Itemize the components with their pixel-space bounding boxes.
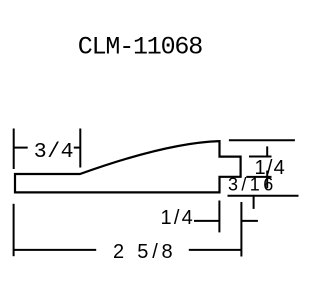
dim 2 5/8 dimension line right segment [189, 249, 242, 251]
bottom dim 1/4 dimension line right stub [241, 220, 258, 222]
molding profile outline [15, 141, 241, 192]
dim 3/4 dimension line left stub [14, 147, 28, 149]
dim 3/4 dimension line right stub [74, 147, 81, 149]
svg-text:2 5/8: 2 5/8 [113, 241, 176, 263]
svg-text:CLM-11068: CLM-11068 [78, 33, 202, 62]
svg-text:3/4: 3/4 [34, 140, 74, 164]
bottom right extension line [228, 195, 299, 197]
tongue top extension line [249, 156, 272, 158]
dim 3/16 lower tick [253, 195, 255, 209]
bottom dim 1/4 dimension line [194, 220, 219, 222]
dim 2 5/8 dimension line left segment [14, 249, 97, 251]
bottom dim 1/4 extension line right [240, 202, 242, 257]
dim 1/4 right lower tick [266, 171, 268, 189]
tongue bottom extension line [246, 176, 271, 178]
svg-text:3/16: 3/16 [228, 175, 277, 195]
dim 3/4 extension line right [79, 129, 81, 168]
svg-text:1/4: 1/4 [161, 207, 195, 229]
right top extension line [229, 139, 295, 141]
dim 3/4 extension line left [13, 129, 15, 170]
dim 2 5/8 extension line left [13, 204, 15, 256]
dim 1/4 right upper tick [266, 146, 268, 157]
bottom dim 1/4 extension line left [218, 201, 220, 233]
